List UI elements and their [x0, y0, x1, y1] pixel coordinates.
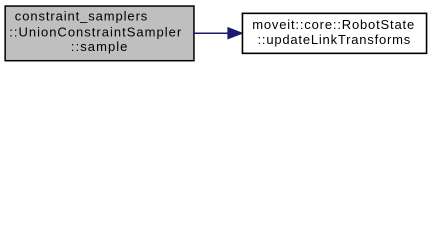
svg-text:::updateLinkTransforms: ::updateLinkTransforms — [258, 32, 411, 47]
svg-text:constraint_samplers: constraint_samplers — [15, 9, 148, 24]
node: constraint_samplers::UnionConstraintSampler::sample (highlighted, grey) — [5, 6, 194, 61]
svg-text:::sample: ::sample — [71, 39, 128, 54]
arrowhead — [228, 28, 243, 39]
wire — [194, 32, 228, 34]
edge: call arrow to updateLinkTransforms — [194, 28, 243, 39]
svg-text:::UnionConstraintSampler: ::UnionConstraintSampler — [9, 25, 182, 40]
svg-text:moveit::core::RobotState: moveit::core::RobotState — [252, 17, 414, 32]
node: moveit::core::RobotState::updateLinkTransforms — [242, 13, 426, 53]
